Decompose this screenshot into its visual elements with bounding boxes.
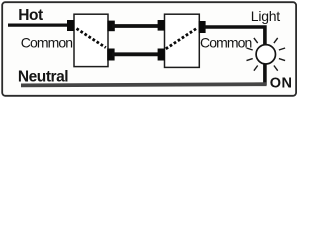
switch S2 thrown contact (dotted) xyxy=(166,28,197,48)
wire traveler top xyxy=(112,24,160,28)
svg-text:ON: ON xyxy=(270,76,293,92)
pin S1 traveler top (right) xyxy=(107,21,114,32)
switch S1 thrown contact (dotted) xyxy=(77,29,106,48)
wire lamp to neutral xyxy=(263,64,267,85)
lamp rays xyxy=(247,38,286,71)
border frame xyxy=(2,2,296,96)
svg-text:Common: Common xyxy=(200,34,252,50)
wire switched hot to lamp xyxy=(204,27,265,45)
pin S2 traveler bottom (left) xyxy=(158,49,165,61)
wire neutral xyxy=(21,84,267,85)
svg-text:Hot: Hot xyxy=(18,7,43,24)
switch S2 body xyxy=(165,14,200,67)
switch S1 body xyxy=(74,14,108,66)
pin S2 traveler top (left) xyxy=(158,20,165,31)
wire traveler bottom xyxy=(112,52,160,56)
svg-text:Neutral: Neutral xyxy=(18,69,68,86)
lamp bulb xyxy=(256,45,275,64)
wire hot feed xyxy=(8,24,70,27)
svg-text:Common: Common xyxy=(21,34,73,50)
svg-text:Light: Light xyxy=(251,8,280,24)
pin S1 traveler bottom (right) xyxy=(107,49,114,61)
pin S2 common (right) xyxy=(199,21,206,33)
pin S1 common (left) xyxy=(67,20,74,31)
